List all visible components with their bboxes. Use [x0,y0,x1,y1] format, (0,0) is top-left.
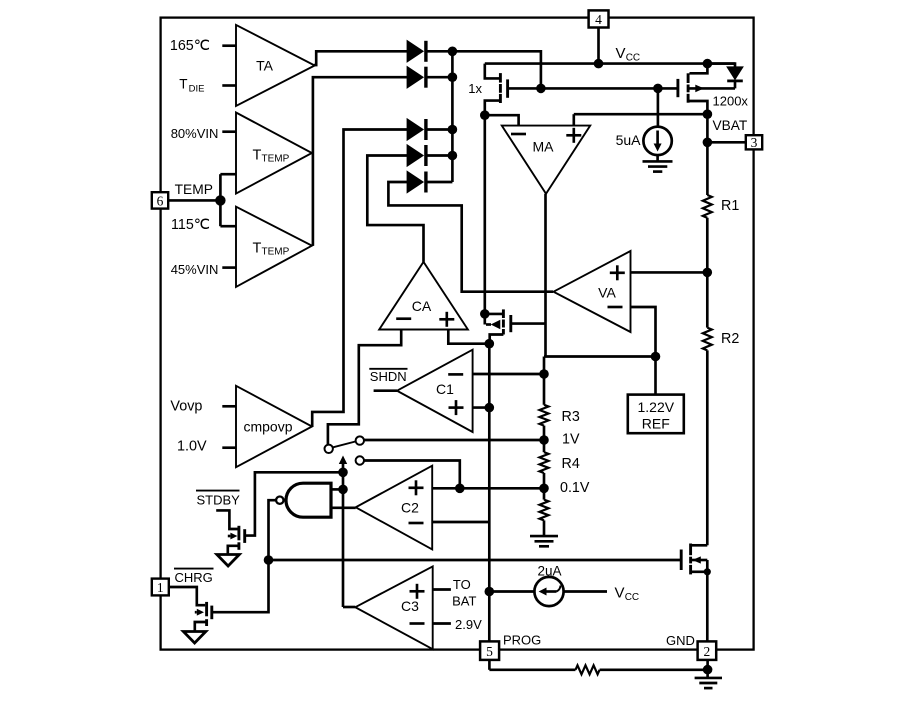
wire C1 plus input [473,406,490,409]
wire VA minus input to ref node [631,307,656,357]
wire SHDN input [374,389,397,392]
ground under divider [530,536,558,546]
wire T_TEMP outputs bus to diode D2 [313,77,407,246]
pin 5 PROG [480,633,541,660]
svg-text:TEMP: TEMP [262,246,290,257]
node bus D1 [448,47,458,57]
resistor R3 [540,405,549,426]
input stub TEMP upper [220,173,236,176]
wire CA minus input to switch pole [328,330,401,445]
svg-text:V: V [615,585,625,602]
svg-text:MA: MA [533,139,555,155]
wire ref row down to R3 [543,357,546,405]
wire VA output to diode D5 [388,182,553,292]
wire pin4 to VCC rail [597,28,600,64]
label CHRG with overline [175,570,213,585]
wire C2 plus input [432,487,544,490]
svg-text:CC: CC [625,592,639,603]
wire MA plus input [572,114,575,125]
wire ref row [544,355,656,358]
ground triangle under CHRG [183,632,205,644]
svg-text:6: 6 [157,193,164,208]
svg-text:R4: R4 [562,456,580,472]
diode D1 [407,41,452,62]
wire gate line 1x to 1200x [509,87,678,90]
pin 2 GND [666,633,716,660]
svg-text:C2: C2 [401,500,419,516]
transistor M3 PMOS [486,309,511,343]
svg-text:STDBY: STDBY [197,493,241,508]
node 0.1V [539,484,549,494]
comparator T_TEMP lower [236,207,312,287]
node TEMP junction [215,195,225,205]
svg-text:4: 4 [595,12,602,27]
wire R1 to R2 [706,218,709,328]
node bus D4 [448,151,458,161]
wire gate rail to M4 [269,559,682,562]
svg-text:1200x: 1200x [713,94,749,109]
pin 3 VBAT [746,135,762,150]
svg-text:CA: CA [412,298,432,314]
switch control arrow [339,456,347,608]
node PROG C3 tap [485,587,495,597]
svg-text:TEMP: TEMP [175,182,213,197]
svg-text:1.0V: 1.0V [177,439,207,455]
transistor M6 CHRG NMOS [169,587,212,632]
svg-text:VBAT: VBAT [713,118,748,133]
switch pole circle [325,445,333,453]
node VCC 1200x [703,59,713,69]
comparator TA [236,25,315,106]
switch throw 0.1V circle [356,456,364,464]
node external ground [703,665,713,675]
transistor M4 NMOS at GND [681,544,711,642]
node gate line 5uA feed [653,84,663,94]
wire pin5 down [488,660,491,670]
svg-text:CC: CC [626,53,640,64]
ground under pin2 [695,670,722,689]
svg-text:TEMP: TEMP [262,153,290,164]
node R1 R2 junction [703,268,713,278]
wire pin2 down [706,660,709,670]
wire prog resistor left [489,668,575,671]
diode D3 [407,119,452,140]
wire CA plus input [448,330,489,344]
wire diode-OR bus [451,51,454,182]
svg-text:Vovp: Vovp [170,399,202,415]
svg-text:V: V [616,45,626,62]
svg-text:5uA: 5uA [616,132,642,148]
input stub TEMP lower [220,225,236,228]
svg-text:cmpovp: cmpovp [243,419,292,435]
resistor R1 [703,195,712,218]
wire NAND output [269,500,277,560]
wire C2 minus input [432,521,489,524]
voltage reference 1.22V REF [628,357,684,434]
wire switch throw1 to 1V tap [364,439,544,442]
wire M3 gate link [512,322,546,325]
input stub 80%VIN [222,130,236,133]
svg-text:3: 3 [751,135,758,150]
current source 2uA [489,564,607,607]
svg-text:VA: VA [598,285,616,301]
switch lever [333,442,355,448]
comparator C3 [355,566,432,649]
comparator C1 [397,350,473,432]
pin 4 VCC [589,10,609,27]
wire NAND input 1 [331,488,343,491]
pin 1 CHRG [152,579,169,596]
pin 6 TEMP [152,182,213,209]
svg-text:165℃: 165℃ [170,38,210,54]
wire VBAT rail [574,113,708,116]
diode D2 [407,67,452,88]
wire CA output to diode D4 [367,156,423,262]
node control STDBY tap [338,468,348,478]
svg-text:45%VIN: 45%VIN [171,262,219,277]
node ref VA tap [651,352,661,362]
svg-text:2uA: 2uA [537,564,561,579]
svg-text:DIE: DIE [189,83,205,94]
wire C1 minus input [473,373,544,376]
wire cmpovp output to diode D3 [312,130,407,427]
wire R2 down to M4 drain [706,350,709,545]
wire R4 to 0.1V node [543,473,546,500]
wire TEMP pin to bracket [168,199,220,202]
svg-text:T: T [253,148,262,164]
svg-text:1: 1 [157,580,164,595]
svg-text:1.22V: 1.22V [638,399,675,415]
label SHDN with overline [370,369,407,384]
input stub 45%VIN [222,266,236,269]
wire NAND input 2 from C2 [331,506,356,509]
wire VA plus input to R1R2 [631,271,708,274]
NAND gate [276,483,331,517]
diode D5 [407,172,452,193]
comparator T_TEMP upper [236,113,312,194]
op-amp CA [379,262,468,330]
node throw2 C2 plus [455,484,465,494]
wire CHRG gate to NAND rail [213,560,269,612]
node M3 top [480,309,490,319]
node control NAND input [338,485,348,495]
svg-text:1V: 1V [562,431,580,447]
svg-text:TO: TO [453,577,471,592]
op-amp MA [502,126,590,194]
ground triangle under STDBY [217,555,239,567]
wire MA output down [544,194,547,357]
label T_DIE [179,76,204,94]
svg-text:SHDN: SHDN [370,369,407,384]
transistor M5 STDBY NMOS [216,510,245,554]
label STDBY with overline [197,493,241,508]
node VBAT [703,109,713,119]
svg-text:2: 2 [704,644,711,659]
svg-text:80%VIN: 80%VIN [171,126,219,141]
wire R3 to 1V node [543,426,546,453]
svg-text:REF: REF [642,416,670,432]
resistor R2 [703,328,712,351]
node NAND output on gate rail [264,555,274,565]
node bus D2 [448,72,458,82]
TA input stub 165C [222,44,236,47]
node 1V [539,435,549,445]
svg-text:2.9V: 2.9V [455,617,482,632]
wire VBAT down to R1 [706,114,709,195]
svg-text:BAT: BAT [452,593,476,608]
label VCC at 2uA [615,585,640,604]
svg-text:CHRG: CHRG [175,570,213,585]
svg-text:0.1V: 0.1V [560,480,590,496]
svg-text:GND: GND [666,633,695,648]
resistor external PROG [576,665,600,674]
node bus D3 [448,125,458,135]
input stub 1.0V [222,446,236,449]
TEMP bracket wire [219,174,222,226]
input stub Vovp [222,405,236,408]
label VCC top [616,45,641,64]
wire PROG net vertical [488,344,491,642]
wire TA output to diode D1 [314,51,407,65]
IC boundary border [161,18,754,650]
diode at 1200x [707,64,742,89]
wire 1x drain down to M3 [483,115,486,324]
transistor M1 1x PMOS [468,64,507,116]
wire prog resistor right [600,668,708,671]
transistor M2 1200x PMOS [678,64,749,115]
wire VBAT to pin3 [707,141,745,144]
node M3 bottom CA plus [485,339,495,349]
comparator C2 [356,466,433,550]
node C1 plus on PROG net [485,403,495,413]
TA input stub TDIE [222,84,236,87]
label TO BAT [452,577,476,609]
node VCC pin4 [594,59,604,69]
svg-text:TA: TA [256,58,274,74]
node VBAT pin3 tap [703,138,713,148]
diode D4 [407,145,452,166]
wire bus to gate line [452,51,541,88]
resistor R5 bottom of divider [540,500,549,521]
resistor R4 [540,452,549,473]
svg-text:T: T [179,76,187,91]
svg-text:1x: 1x [468,81,482,96]
ground under 5uA [643,155,673,172]
wire R5 to ground [543,520,546,536]
wire C3 minus stub [433,622,451,625]
node C1 minus junction [539,369,549,379]
wire C3 plus stub [433,588,451,591]
svg-text:R1: R1 [721,198,739,214]
wire MA minus input [485,115,519,125]
svg-text:115℃: 115℃ [171,217,210,233]
op-amp VA [554,251,631,332]
wire VCC rail [485,62,735,65]
svg-text:T: T [253,241,262,257]
node gate line bus feed [536,84,546,94]
wire C3 output link [343,606,355,609]
svg-text:R2: R2 [721,331,739,347]
comparator cmpovp [236,386,312,467]
wire control to STDBY gate [246,472,343,535]
svg-text:5: 5 [486,644,493,659]
current source 5uA [616,88,672,155]
svg-text:PROG: PROG [503,633,541,648]
svg-text:C1: C1 [436,381,454,397]
svg-text:R3: R3 [562,409,580,425]
svg-text:C3: C3 [401,598,419,614]
switch throw 1V circle [356,436,364,444]
node 1x drain [480,110,490,120]
wire switch throw2 to 0.1V tap [364,461,460,489]
